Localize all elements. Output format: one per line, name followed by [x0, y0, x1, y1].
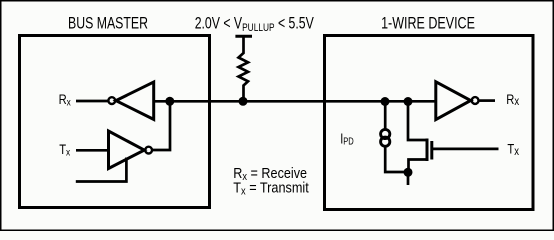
svg-text:Tx: Tx	[507, 142, 519, 158]
svg-text:BUS MASTER: BUS MASTER	[68, 15, 148, 33]
buffer triangle (bus master Tx)	[109, 131, 145, 169]
wire Tx enable stub	[76, 158, 127, 182]
wire mosfet source	[409, 160, 427, 173]
inverter triangle (bus master Rx)	[116, 82, 154, 119]
junction dot resistor to bus	[239, 97, 248, 106]
resistor R pullup	[239, 36, 249, 101]
buffer bubble (bus master Tx)	[145, 147, 152, 154]
junction dot bus master output	[165, 97, 174, 106]
svg-text:1-WIRE DEVICE: 1-WIRE DEVICE	[381, 15, 475, 33]
junction dot mosfet drain tap	[404, 97, 413, 106]
wire Rx to inverter bubble	[76, 100, 109, 103]
buffer bubble (1-wire Rx)	[472, 97, 479, 104]
wire current source bottom lead	[385, 146, 408, 172]
bus master box	[20, 36, 210, 208]
wire Tx output to bus junction	[153, 101, 171, 150]
transistor mosfet channel bar	[426, 139, 429, 162]
transistor mosfet gate bar	[430, 141, 433, 160]
wire mosfet gate to Tx	[433, 148, 499, 151]
svg-text:Rx: Rx	[506, 92, 520, 108]
current source IPD (interlocked circles)	[381, 129, 390, 138]
junction dot current source tap	[381, 97, 390, 106]
wire bus line	[154, 100, 436, 103]
buffer triangle (1-wire Rx)	[436, 82, 471, 120]
inverter bubble (bus master Rx)	[108, 97, 115, 104]
wire current source top lead	[384, 102, 387, 130]
junction dot bottom node	[404, 168, 413, 177]
wire bottom stub	[407, 172, 410, 185]
wire buffer output to Rx label	[479, 99, 495, 102]
resistor pullup terminal bar	[235, 35, 252, 38]
1-wire device box	[325, 36, 534, 210]
wire Tx input	[76, 149, 109, 152]
wire mosfet drain	[408, 102, 426, 141]
